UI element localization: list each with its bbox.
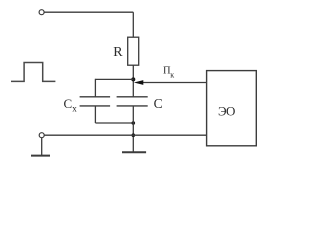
wire bottom bracket [95,122,133,124]
wire top horizontal [44,11,133,13]
wire Cx top lead [94,79,96,97]
wire vertical to resistor [132,12,134,37]
input terminal (top-left circle) [39,10,44,15]
ground (left) [31,155,50,157]
svg-text:C: C [154,96,163,111]
wire bottom horizontal [44,134,206,136]
svg-text:х: х [72,104,77,114]
svg-text:ЭО: ЭО [218,104,235,119]
arrowhead (points left at node) [134,80,143,85]
node bottom wire junction [132,133,136,137]
output terminal (bottom-left circle) [39,133,44,138]
node collector junction [131,77,135,81]
resistor R [128,37,139,65]
svg-text:R: R [113,45,123,60]
svg-text:C: C [64,96,73,111]
capacitor C [117,96,148,98]
ground (middle) [122,151,146,153]
wire C bottom to ground [132,106,134,152]
capacitor Cx [80,96,111,98]
wire top bracket to Cx [95,78,133,80]
node bottom bracket junction [132,121,136,125]
input pulse symbol [11,63,55,82]
wire resistor to capacitor C [132,65,134,97]
wire terminal to left ground [41,138,43,156]
wire Cx bottom lead [94,106,96,123]
oscilloscope EO box [207,71,257,146]
svg-text:к: к [170,70,174,79]
signal line to oscilloscope [141,82,207,84]
